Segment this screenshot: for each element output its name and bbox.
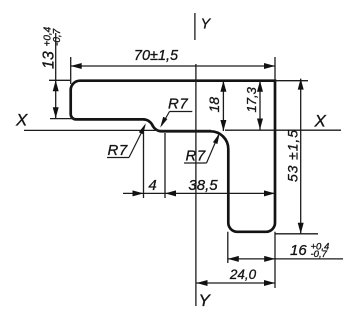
extension lines (all dimensions) (49, 57, 318, 288)
svg-text:70±1,5: 70±1,5 (134, 48, 179, 64)
svg-text:4: 4 (148, 177, 156, 194)
svg-text:R7: R7 (108, 142, 128, 159)
dimension 16 +0,4/-0,7 (leg thickness) (228, 258, 343, 260)
svg-text:Y: Y (201, 17, 212, 33)
svg-text:17,3: 17,3 (244, 86, 259, 112)
dimension 17,3 (top edge to X axis) (259, 81, 261, 130)
svg-text:13: 13 (41, 51, 58, 69)
Y axis (195, 13, 196, 306)
svg-text:18: 18 (206, 97, 222, 113)
dimension 53±1,5 (leg height) (300, 79, 302, 234)
L-angle profile cross-section outline (71, 81, 275, 232)
svg-text:53 ±1,5: 53 ±1,5 (285, 129, 301, 182)
svg-text:16: 16 (290, 242, 307, 259)
svg-text:R7: R7 (168, 96, 188, 113)
dimension 13 +0,4/-0,7 (flange tip thickness) (55, 33, 57, 118)
svg-text:R7: R7 (186, 148, 206, 165)
svg-text:X: X (15, 111, 28, 130)
X axis (24, 129, 341, 131)
svg-text:38,5: 38,5 (188, 177, 218, 194)
dimensions 4 and 38,5 (step location) (123, 192, 275, 194)
svg-text:-0,7: -0,7 (311, 249, 328, 260)
svg-text:24,0: 24,0 (229, 267, 257, 282)
svg-text:-0,7: -0,7 (52, 28, 63, 46)
dimension 70±1,5 (overall width) (71, 65, 275, 67)
svg-text:X: X (314, 112, 327, 131)
dimension 24,0 (Y axis to leg outer face) (197, 282, 276, 284)
svg-text:Y: Y (199, 291, 212, 310)
dimension 18 (flange root thickness) (222, 81, 224, 131)
